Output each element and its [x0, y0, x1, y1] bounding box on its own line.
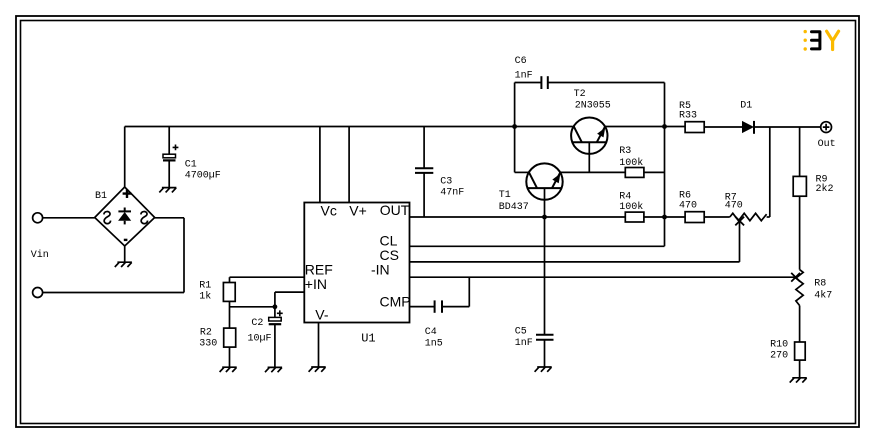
node dot C2-+IN [273, 304, 278, 309]
svg-text:B1: B1 [95, 191, 107, 202]
node dot T2 emitter column [662, 124, 667, 129]
svg-text:2N3055: 2N3055 [575, 100, 611, 111]
svg-text:T1: T1 [499, 190, 511, 201]
svg-text:C1: C1 [185, 160, 197, 171]
wire R7 right riser [769, 127, 771, 217]
svg-text:Vin: Vin [31, 249, 49, 261]
capacitor C5 [536, 335, 554, 340]
ground under R2 [220, 367, 237, 372]
wire REF [230, 276, 305, 278]
wire C1 lower [168, 160, 170, 187]
wire CS [410, 261, 740, 263]
resistor R3 [625, 168, 644, 178]
svg-text:R10: R10 [770, 340, 788, 351]
node dot T1 base-OUT [542, 215, 547, 220]
bridge rectifier B1 [95, 187, 155, 246]
svg-text:C6: C6 [515, 56, 527, 67]
wire R7 to riser [767, 216, 770, 218]
ground under C1 [159, 188, 176, 193]
svg-text:100k: 100k [619, 201, 643, 213]
svg-text:V-: V- [315, 307, 329, 323]
wire R8 to R10 [799, 306, 801, 343]
svg-text:R8: R8 [814, 279, 826, 290]
svg-text:CL: CL [380, 233, 398, 249]
svg-text:R3: R3 [619, 146, 631, 157]
wire top rail [125, 126, 573, 128]
svg-text:R1: R1 [199, 281, 211, 292]
wire C1 upper [168, 127, 170, 155]
wire R10 to ground [799, 360, 801, 378]
wire Vin plus [43, 217, 95, 219]
svg-text:+IN: +IN [305, 276, 327, 292]
svg-text:D1: D1 [740, 101, 752, 112]
wire bridge riser [124, 127, 126, 188]
potentiometer R8 [791, 270, 803, 306]
resistor R1 [223, 283, 235, 302]
wire R7 wiper riser [739, 222, 741, 262]
resistor R9 [793, 176, 806, 196]
wire bridge right [155, 217, 184, 219]
svg-text:1nF: 1nF [515, 338, 533, 349]
terminal Vin - [33, 288, 43, 298]
wire R2 to ground [229, 347, 231, 367]
wire OUT line to R4 [410, 216, 626, 218]
capacitor C2 [269, 310, 283, 324]
capacitor C4 [435, 300, 442, 312]
diode D1 [742, 121, 754, 133]
transistor T2 2N3055 [571, 118, 607, 154]
wire Vin minus [43, 292, 184, 294]
wire C3 upper [423, 127, 425, 169]
wire T1 emitter to R3 [560, 171, 625, 173]
svg-text:C5: C5 [515, 326, 527, 337]
wire R1 to R2 [229, 301, 231, 328]
wire R9 upper [799, 127, 801, 176]
terminal Out [821, 122, 832, 133]
wire C3 lower [423, 173, 425, 217]
wire R4 to R6 [644, 216, 685, 218]
wire +IN riser [274, 292, 276, 307]
logo reversed-E glyph [812, 32, 820, 49]
wire T2 base [588, 143, 590, 173]
wire C2 junction link [230, 306, 275, 308]
svg-text:T2: T2 [574, 89, 586, 100]
resistor R10 [795, 342, 806, 360]
svg-text:OUT: OUT [380, 202, 410, 218]
wire C6-T1 collector vertical [514, 83, 516, 173]
resistor R2 [224, 328, 236, 347]
svg-text:270: 270 [770, 350, 788, 361]
ground under V- [309, 367, 326, 372]
svg-text:-IN: -IN [371, 262, 390, 278]
ground under C2 [265, 367, 282, 372]
logo Y glyph [827, 31, 839, 49]
wire CL [410, 245, 665, 247]
wire R3 to node [644, 171, 665, 173]
node dot R4-R6 [662, 215, 667, 220]
logo dots [804, 30, 807, 51]
svg-text:1nF: 1nF [515, 71, 533, 82]
svg-text:10µF: 10µF [248, 333, 272, 344]
wire T1 base to C5 [544, 188, 546, 334]
wire bridge bottom stem [124, 246, 126, 262]
transistor T1 BD437 [526, 163, 562, 199]
resistor R4 [625, 212, 644, 222]
wire R5 to D1 [704, 126, 742, 128]
wire D1 to Out [755, 126, 821, 128]
wire CMP right [442, 306, 469, 308]
svg-text:1k: 1k [199, 291, 211, 303]
svg-text:Vc: Vc [321, 203, 337, 219]
ground under R10 [790, 378, 807, 383]
wire R9 to R8 [799, 196, 801, 269]
svg-text:1n5: 1n5 [425, 339, 443, 350]
capacitor C3 [415, 168, 433, 173]
resistor R5 [685, 122, 704, 133]
node dot rail-C6-T1 [512, 124, 517, 129]
wire +IN [275, 291, 304, 293]
wire CMP left [410, 306, 435, 308]
svg-text:4700µF: 4700µF [185, 170, 221, 181]
wire C2 lower [274, 325, 276, 367]
ground under C5 [535, 367, 552, 372]
svg-text:U1: U1 [361, 332, 375, 346]
potentiometer R7 [730, 213, 767, 225]
terminal Vin + [33, 213, 43, 223]
wire C6 right [548, 82, 665, 84]
svg-text:330: 330 [199, 339, 217, 350]
svg-text:C2: C2 [251, 318, 263, 329]
svg-text:470: 470 [725, 201, 743, 212]
wire T2 emitter to R5 [606, 126, 686, 128]
resistor R6 [685, 212, 704, 223]
svg-text:2k2: 2k2 [816, 183, 834, 195]
capacitor C1 [163, 145, 178, 161]
svg-text:CMP: CMP [380, 293, 411, 309]
svg-text:4k7: 4k7 [814, 290, 832, 302]
wire T1 collector [515, 171, 529, 173]
svg-text:Out: Out [818, 139, 836, 150]
svg-text:C4: C4 [425, 327, 437, 338]
svg-text:R4: R4 [619, 191, 631, 202]
wire REF to R1 [229, 277, 231, 282]
svg-text:100k: 100k [619, 157, 643, 169]
svg-text:470: 470 [679, 201, 697, 212]
wire V+ pin [348, 127, 350, 203]
op-amp regulator U1 box [304, 203, 409, 323]
wire -IN [410, 276, 796, 278]
svg-text:47nF: 47nF [440, 187, 464, 198]
capacitor C6 [541, 76, 547, 89]
wire C5 lower [544, 340, 546, 367]
svg-text:C3: C3 [440, 177, 452, 188]
wire R6 to R7 [704, 216, 730, 218]
svg-text:R2: R2 [200, 327, 212, 338]
wire V- pin [318, 323, 320, 367]
ground under bridge [115, 262, 132, 267]
svg-text:V+: V+ [349, 203, 367, 219]
svg-text:BD437: BD437 [499, 202, 529, 213]
svg-text:REF: REF [305, 262, 333, 278]
svg-text:R33: R33 [679, 111, 697, 122]
wire C4 riser [468, 277, 470, 306]
wire C6 left [515, 82, 541, 84]
wire Vc pin [319, 127, 321, 203]
wire Vin minus riser [183, 218, 185, 293]
wire C2 upper [274, 307, 276, 318]
wire node column x664 [664, 83, 666, 247]
